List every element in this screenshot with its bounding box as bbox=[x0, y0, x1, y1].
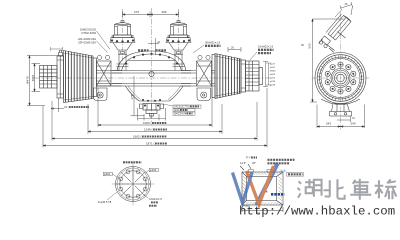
svg-text:543: 543 bbox=[308, 43, 312, 48]
svg-text:23F-02M2-03A: 23F-02M2-03A bbox=[78, 40, 96, 44]
svg-text:240: 240 bbox=[350, 122, 355, 126]
svg-text:178: 178 bbox=[130, 94, 134, 99]
svg-text:DTM2-6X84: DTM2-6X84 bbox=[82, 31, 97, 35]
svg-text:φ222: φ222 bbox=[270, 77, 276, 80]
svg-text:14.5°: 14.5° bbox=[240, 161, 246, 165]
svg-text:φ249: φ249 bbox=[270, 84, 276, 87]
svg-text:4-M14×1.5: 4-M14×1.5 bbox=[149, 197, 162, 201]
svg-text:8-φ36.5 T8: 8-φ36.5 T8 bbox=[98, 200, 112, 204]
svg-text:1871 (: 1871 ( bbox=[146, 142, 155, 146]
svg-text:243: 243 bbox=[326, 122, 331, 126]
svg-text:1249 (: 1249 ( bbox=[144, 128, 153, 132]
svg-text:Φ470: Φ470 bbox=[26, 76, 30, 84]
svg-text:276: 276 bbox=[134, 10, 139, 14]
svg-text:1662 (: 1662 ( bbox=[133, 135, 142, 139]
svg-text:φ161: φ161 bbox=[270, 66, 276, 69]
svg-text:30×M22×1.5: 30×M22×1.5 bbox=[205, 41, 221, 45]
svg-text:φ302: φ302 bbox=[104, 172, 111, 176]
svg-text:34 (: 34 ( bbox=[64, 105, 69, 109]
svg-text:http://www.hbaxle.com: http://www.hbaxle.com bbox=[239, 205, 395, 219]
svg-text:φ127: φ127 bbox=[270, 63, 276, 66]
svg-text:P-Y: P-Y bbox=[246, 156, 251, 160]
svg-text:1003 (: 1003 ( bbox=[143, 121, 152, 125]
svg-text:10×M22×1.5: 10×M22×1.5 bbox=[258, 45, 274, 49]
svg-text:M180: M180 bbox=[270, 71, 276, 73]
svg-text:45°: 45° bbox=[252, 161, 256, 165]
svg-text:φ340: φ340 bbox=[150, 168, 157, 172]
svg-text:296: 296 bbox=[161, 10, 166, 14]
svg-text:Φ364: Φ364 bbox=[31, 74, 35, 81]
svg-text:φ203: φ203 bbox=[270, 73, 276, 76]
svg-text:φ233: φ233 bbox=[270, 80, 276, 83]
